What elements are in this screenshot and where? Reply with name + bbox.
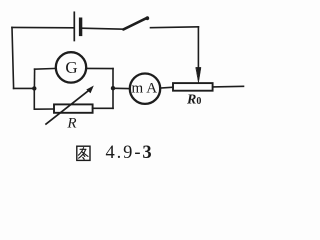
wire to G left bbox=[35, 67, 57, 70]
wire top-left from corner to battery bbox=[12, 26, 74, 28]
resistor R arrowhead bbox=[87, 86, 93, 93]
galvanometer U1 G circle bbox=[56, 52, 86, 82]
wire left vertical bbox=[12, 27, 14, 88]
milliammeter U2 mA circle bbox=[130, 74, 160, 104]
wire node B down bbox=[112, 88, 114, 108]
node B junction dot bbox=[111, 86, 115, 90]
wire to R left bbox=[34, 108, 54, 110]
battery B long plate bbox=[73, 12, 75, 40]
battery B short thick plate bbox=[79, 19, 82, 34]
wire node A up bbox=[33, 69, 35, 88]
svg-text:4.9-3: 4.9-3 bbox=[106, 143, 154, 163]
wire node B to mA bbox=[115, 87, 130, 89]
wire bottom-left to node A bbox=[14, 87, 35, 89]
svg-text:R: R bbox=[66, 116, 76, 132]
wire G right to node B bbox=[86, 67, 113, 69]
svg-text:G: G bbox=[65, 58, 77, 77]
caption character 图 (drawn) bbox=[77, 146, 90, 160]
wire R0 right terminal bbox=[213, 85, 244, 88]
wire battery to switch bbox=[82, 28, 123, 29]
switch S blade tip blob bbox=[145, 16, 149, 20]
wire node A down bbox=[33, 88, 35, 109]
resistor R box bbox=[54, 104, 93, 112]
resistor R arrow (rheostat diagonal) bbox=[46, 90, 90, 124]
wire R right to node B branch bbox=[93, 107, 113, 109]
wire right vertical to wiper bbox=[197, 27, 199, 68]
wire down to node B bbox=[112, 69, 114, 89]
node A junction dot bbox=[32, 86, 36, 90]
switch S blade bbox=[123, 18, 147, 30]
wire switch to top-right corner bbox=[151, 26, 199, 29]
potentiometer R0 box bbox=[173, 83, 213, 91]
svg-text:m A: m A bbox=[132, 80, 158, 96]
potentiometer R0 wiper arrowhead bbox=[196, 67, 201, 82]
wire mA to R0 bbox=[160, 86, 173, 89]
